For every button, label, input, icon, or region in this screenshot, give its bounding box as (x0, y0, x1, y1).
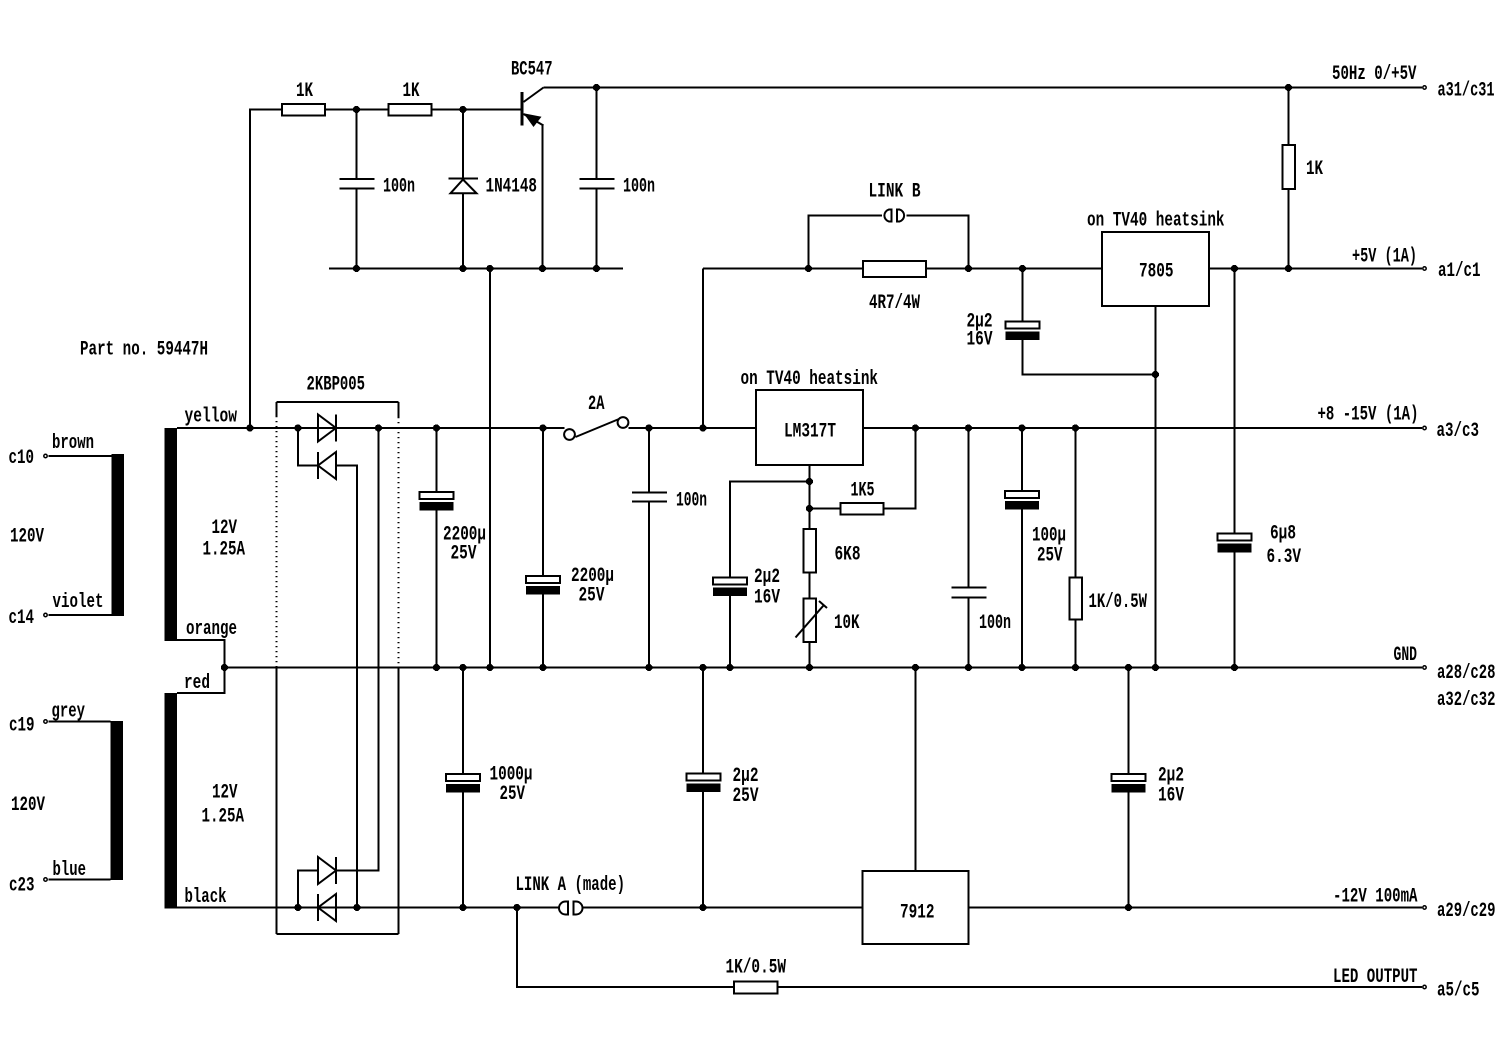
diode D1 (bridge top, anode on yellow rail) (318, 415, 336, 442)
svg-text:a31/c31: a31/c31 (1438, 80, 1495, 103)
junction 100n-2 on top ground rail (593, 265, 600, 272)
wire BC547 emitter down to top ground rail (542, 126, 544, 269)
svg-text:LINK A (made): LINK A (made) (516, 874, 626, 897)
svg-text:a28/c28: a28/c28 (1437, 662, 1496, 685)
svg-text:LINK B: LINK B (869, 181, 921, 204)
junction 1000u bottom on black rail (459, 904, 466, 911)
svg-text:-12V 100mA: -12V 100mA (1333, 886, 1418, 909)
resistor 1K5 (adj to output) (810, 428, 916, 515)
regulator U3 7912 (863, 871, 969, 944)
svg-text:1K: 1K (1306, 158, 1323, 181)
wire 7805 output to a1/c1 (1209, 268, 1422, 270)
capacitor 2u2 25V (7912 input) (687, 668, 759, 908)
svg-text:120V: 120V (11, 794, 45, 817)
junction 100n top (645, 424, 652, 431)
junction adj node B (806, 505, 813, 512)
terminal c14 (9, 607, 48, 630)
terminal c19 (9, 715, 47, 738)
junction LINK B right on +5V feed (965, 265, 972, 272)
capacitor 100n (first, at x=356.5) (340, 110, 416, 269)
junction 100n out top (965, 424, 972, 431)
diode D3 (bridge third, cathode to long vertical) (318, 857, 336, 884)
svg-text:black: black (185, 886, 227, 909)
wire LED output tap down from black rail (517, 908, 734, 988)
transformer secondary winding S1 (12V 1.25A yellow/orange) (165, 428, 246, 641)
svg-text:10K: 10K (834, 612, 860, 635)
wire orange tap S1 bottom to centre node (177, 640, 225, 668)
svg-text:16V: 16V (1158, 785, 1184, 808)
link A (made) (516, 874, 626, 915)
junction 100n-1 on top ground rail (353, 265, 360, 272)
svg-text:+5V (1A): +5V (1A) (1352, 246, 1417, 269)
junction bleeder bottom (1072, 664, 1079, 671)
link B (wire link over 4R7) (809, 181, 969, 269)
wire c23 to P2 (blue) (49, 859, 111, 882)
wire 7912 output to a29/c29 terminal (969, 907, 1423, 909)
junction 100u top (1018, 424, 1025, 431)
junction 100u bottom (1018, 664, 1025, 671)
svg-text:6.3V: 6.3V (1267, 546, 1302, 569)
transformer secondary winding S2 (12V 1.25A red/black) (165, 693, 245, 909)
svg-text:120V: 120V (10, 526, 44, 549)
junction LINK B left on +5V feed (805, 265, 812, 272)
svg-text:blue: blue (53, 859, 87, 882)
capacitor 2200u 25V (second smoothing) (526, 428, 614, 668)
junction 100n out bottom (965, 664, 972, 671)
wire D3 anode to black rail (298, 871, 318, 908)
junction D2 wire on black rail (353, 904, 360, 911)
svg-text:a3/c3: a3/c3 (1437, 420, 1480, 443)
terminal a28/c28 a32/c32 (GND) (1394, 644, 1496, 712)
svg-text:12V: 12V (212, 517, 238, 540)
wire yellow rail (+8..-15V raw DC, y=428) (177, 427, 565, 429)
junction 1000u top on GND (459, 664, 466, 671)
capacitor 100n (LM317 output) (952, 428, 1012, 668)
wire black rail LINK A to 7912 input (582, 907, 863, 909)
junction D3 anode on black rail (294, 904, 301, 911)
terminal c10 (9, 447, 48, 470)
diode 1N4148 (449, 110, 538, 269)
terminal a1/c1 (+5V 1A) (1352, 246, 1481, 284)
svg-text:LM317T: LM317T (784, 421, 836, 444)
svg-text:1.25A: 1.25A (203, 539, 246, 562)
junction 7912 gnd on GND rail (912, 664, 919, 671)
junction riser on yellow rail (699, 424, 706, 431)
wire +5V feed rail (y=268.5) from riser to 7805 (703, 268, 1102, 270)
svg-text:on TV40 heatsink: on TV40 heatsink (741, 368, 879, 391)
wire LED resistor to a5/c5 (778, 986, 1423, 988)
svg-text:Part no. 59447H: Part no. 59447H (80, 339, 208, 362)
wire D2 anode down to black rail (336, 466, 357, 908)
wire top ground rail (y=268.5) (329, 268, 623, 270)
junction 2u2 adj bottom on GND (726, 664, 733, 671)
junction adj node A (806, 478, 813, 485)
junction emitter on top ground rail (539, 265, 546, 272)
wire rail from switch to LM317T input (629, 427, 757, 429)
svg-text:100n: 100n (623, 176, 655, 199)
potentiometer 10K (796, 599, 860, 668)
svg-text:1K5: 1K5 (851, 480, 875, 503)
wire R2 to BC547 base (431, 109, 521, 111)
wire black rail (-12V, y=907.5) (177, 907, 559, 909)
junction 1K bottom on +5V rail (1285, 265, 1292, 272)
capacitor 100n (second, at x=596.5) (580, 88, 656, 269)
capacitor 100n (after switch) (632, 428, 707, 668)
svg-text:GND: GND (1394, 644, 1418, 667)
junction 2u2-25V top on GND (699, 664, 706, 671)
svg-text:25V: 25V (1037, 545, 1063, 568)
resistor 1K/0.5W (LED series) (726, 957, 787, 994)
junction 2u2 out top on GND (1125, 664, 1132, 671)
regulator U1 7805 (1087, 210, 1225, 307)
capacitor 2200u 25V (first smoothing) (420, 428, 487, 668)
terminal c23 (9, 875, 47, 898)
junction 2200u-1 top (433, 424, 440, 431)
svg-text:2KBP005: 2KBP005 (307, 374, 366, 397)
junction 2u2-25V bottom on black rail (699, 904, 706, 911)
svg-text:a5/c5: a5/c5 (1437, 980, 1480, 1003)
transformer primary winding P2 (120V grey/blue) (111, 721, 124, 880)
junction +5V output node (1231, 265, 1238, 272)
wire R1 to R2 (325, 109, 389, 111)
svg-text:brown: brown (52, 432, 94, 455)
terminal a5/c5 (LED OUTPUT) (1333, 966, 1480, 1003)
junction collector rail / 100n (593, 84, 600, 91)
svg-text:c23: c23 (9, 875, 35, 898)
wire top ground rail drop to GND rail (x=490) (489, 269, 491, 668)
junction 2200u-1 bottom (433, 664, 440, 671)
resistor 1K/0.5W (bleeder) (1070, 428, 1148, 668)
wire rail LM317T output to a3/c3 terminal (863, 427, 1422, 429)
resistor 4R7/4W (863, 261, 926, 315)
svg-text:16V: 16V (754, 587, 780, 610)
svg-text:7805: 7805 (1139, 261, 1174, 284)
junction riser on yellow rail (246, 424, 253, 431)
terminal a31/c31 (50Hz 0/+5V) (1332, 63, 1495, 103)
svg-text:2A: 2A (588, 393, 605, 416)
capacitor 2u2 16V (at 7805 input) (967, 269, 1156, 375)
junction 2200u-2 top (539, 424, 546, 431)
terminal a3/c3 (+8 -15V 1A) (1318, 404, 1480, 444)
junction LED tap on black rail (513, 904, 520, 911)
wire riser x=703 from yellow rail up to +5V feed (702, 269, 704, 429)
capacitor 1000u 25V (negative smoothing) (446, 668, 533, 908)
junction drop bottom on GND (486, 664, 493, 671)
wire c10 to P1 (brown) (49, 432, 112, 456)
regulator U2 LM317T (741, 368, 879, 465)
svg-text:6K8: 6K8 (835, 544, 861, 567)
junction 2u2 top on +5V feed (1019, 265, 1026, 272)
svg-text:red: red (184, 672, 210, 695)
svg-text:grey: grey (52, 701, 86, 724)
svg-text:c14: c14 (9, 607, 35, 630)
wire left riser to 1K (x=250, top-left oscillator feed) (250, 110, 282, 429)
switch 2A (564, 393, 628, 440)
junction bridge top left (294, 424, 301, 431)
svg-text:yellow: yellow (185, 406, 238, 429)
svg-text:1K: 1K (296, 80, 313, 103)
resistor R2 1K (389, 80, 432, 116)
svg-text:1N4148: 1N4148 (486, 176, 538, 199)
resistor 1K (vertical, at x=1288.5) (1283, 88, 1324, 269)
resistor R1 1K (282, 80, 325, 116)
svg-text:100n: 100n (979, 612, 1011, 635)
svg-text:25V: 25V (733, 785, 759, 808)
svg-text:1K/0.5W: 1K/0.5W (1089, 591, 1148, 614)
svg-text:a32/c32: a32/c32 (1437, 689, 1496, 712)
svg-text:25V: 25V (579, 585, 605, 608)
wire GND rail (y=667.5) (225, 667, 1423, 669)
svg-text:BC547: BC547 (511, 59, 553, 82)
svg-text:LED OUTPUT: LED OUTPUT (1333, 966, 1418, 989)
transistor Q1 BC547 (511, 59, 553, 128)
wire red tap down to S2 top (177, 668, 225, 694)
wire c14 to P1 (violet) (49, 591, 112, 615)
junction red tap (221, 664, 228, 671)
capacitor 2u2 16V (7912 output) (1112, 668, 1185, 908)
svg-text:6µ8: 6µ8 (1270, 523, 1296, 546)
svg-text:a29/c29: a29/c29 (1437, 900, 1496, 923)
svg-text:1K: 1K (403, 80, 420, 103)
junction 100n bottom (645, 664, 652, 671)
capacitor 100u 25V (output) (1005, 428, 1066, 668)
svg-text:100n: 100n (383, 176, 415, 199)
capacitor 6u8 6.3V (on +5V output) (1218, 269, 1302, 668)
junction 2200u-2 bottom (539, 664, 546, 671)
wire c19 to P2 (grey) (49, 701, 111, 724)
svg-text:7912: 7912 (900, 902, 935, 925)
svg-text:c10: c10 (9, 447, 35, 470)
resistor 6K8 (adj divider) (804, 529, 861, 599)
wire BC547 collector rail (y=87.5) to a31/c31 (544, 87, 1423, 89)
junction bridge top right (375, 424, 382, 431)
junction 6u8 bottom on GND rail (1231, 664, 1238, 671)
junction 1K5 on output rail (912, 424, 919, 431)
junction 1N4148 tap (459, 106, 466, 113)
junction bleeder top (1072, 424, 1079, 431)
diode D2 (bridge second, cathode left) (318, 452, 336, 479)
junction pot bottom on GND (806, 664, 813, 671)
svg-text:4R7/4W: 4R7/4W (869, 292, 920, 315)
junction 1K top on collector rail (1285, 84, 1292, 91)
svg-text:on TV40 heatsink: on TV40 heatsink (1087, 210, 1225, 233)
svg-text:50Hz 0/+5V: 50Hz 0/+5V (1332, 63, 1417, 86)
svg-text:25V: 25V (451, 543, 477, 566)
wire LM317T adj pin chain down to GND (809, 465, 811, 529)
terminal a29/c29 (-12V 100mA) (1333, 886, 1496, 924)
capacitor 2u2 16V (adj bypass) (713, 566, 780, 668)
svg-text:16V: 16V (967, 329, 993, 352)
wire 7805 ground pin down to GND rail (1155, 306, 1157, 668)
wire adj node A to 2u2 cap (730, 482, 810, 578)
junction 2u2 out bottom on -12V rail (1125, 904, 1132, 911)
bridge rectifier 2KBP005 outline box (277, 374, 399, 935)
svg-text:25V: 25V (500, 783, 526, 806)
junction 1N4148 on top ground rail (459, 265, 466, 272)
svg-text:orange: orange (186, 618, 237, 641)
junction 2u2 return on 7805 gnd line (1152, 371, 1159, 378)
wire yellow rail down to D3 cathode (336, 428, 379, 871)
svg-text:+8 -15V (1A): +8 -15V (1A) (1318, 404, 1419, 427)
wire yellow-rail junction to D2 cathode (298, 428, 318, 466)
svg-text:1K/0.5W: 1K/0.5W (726, 957, 787, 980)
svg-text:1.25A: 1.25A (202, 806, 245, 829)
svg-text:c19: c19 (9, 715, 35, 738)
diode D4 (bridge bottom, inline on black rail) (318, 894, 336, 921)
junction 100n tap (353, 106, 360, 113)
transformer primary winding P1 (120V brown/violet) (112, 454, 125, 616)
junction 7805 gnd on GND rail (1152, 664, 1159, 671)
svg-text:100n: 100n (676, 490, 707, 513)
svg-text:a1/c1: a1/c1 (1438, 260, 1481, 283)
svg-text:12V: 12V (212, 782, 238, 805)
wire 7912 ground pin up to GND rail (915, 668, 917, 872)
junction drop top (486, 265, 493, 272)
svg-text:violet: violet (53, 591, 104, 614)
